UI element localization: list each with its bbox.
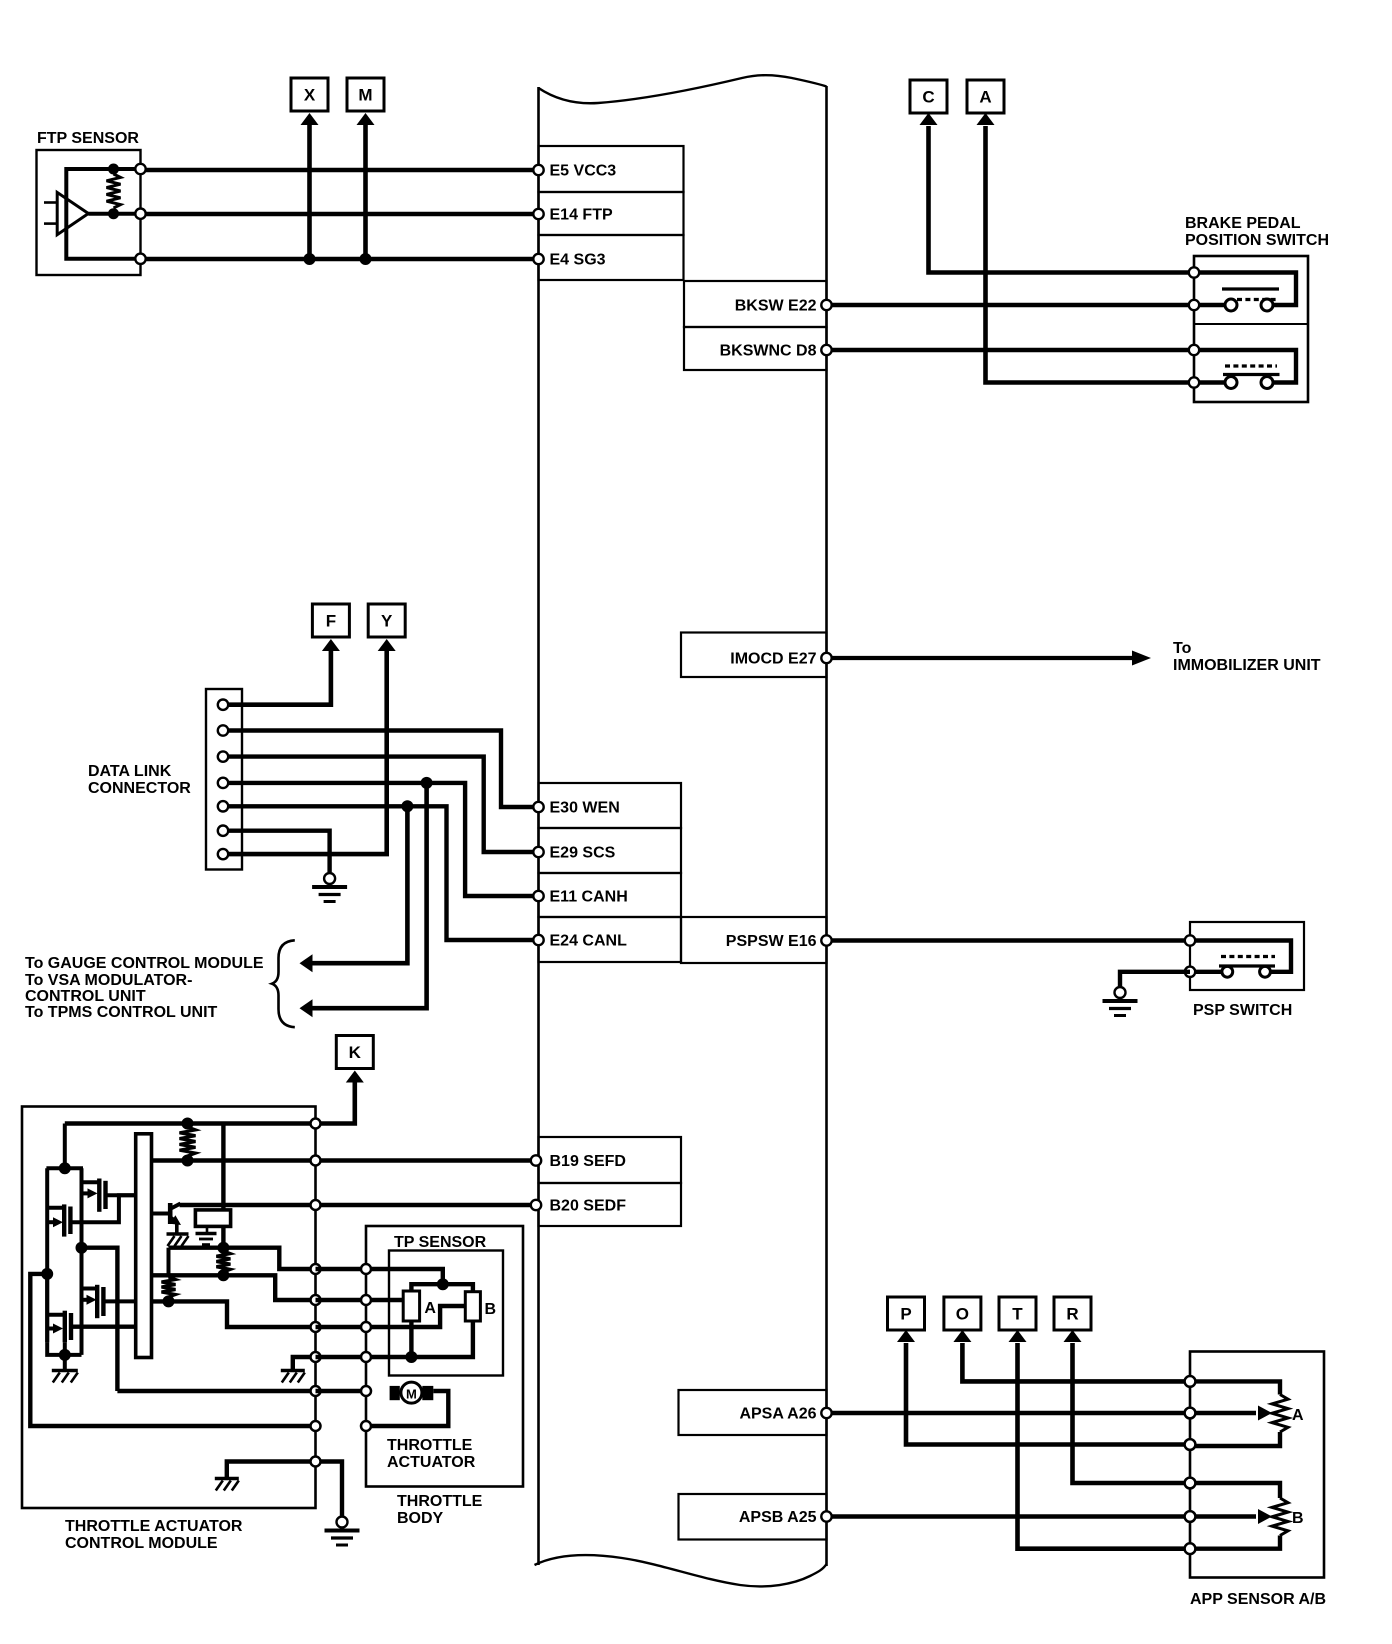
wire TACM to throttle body VCC bbox=[316, 1267, 367, 1271]
svg-text:APSA A26: APSA A26 bbox=[739, 1406, 816, 1423]
FTP sensor pin 3 bbox=[135, 254, 145, 264]
wire ECM BKSWNC D8 to switch bbox=[832, 348, 1195, 352]
PSP switch closed contact bar bbox=[1219, 964, 1275, 967]
APP sensor pot A feed wires bbox=[1190, 1381, 1280, 1394]
svg-text:M: M bbox=[406, 1387, 417, 1402]
junction dot R1 top bbox=[182, 1118, 194, 1130]
wire TACM to TP signal A bbox=[316, 1298, 367, 1302]
APP sensor pot B feed wires bbox=[1190, 1483, 1280, 1498]
wire motor feed bbox=[117, 1389, 315, 1393]
wire ECM BKSW E22 to switch bbox=[832, 303, 1195, 307]
ECM band bottom wavy edge bbox=[535, 1555, 827, 1586]
brace for module list bbox=[272, 940, 295, 1027]
throttle body pin circles bbox=[361, 1264, 371, 1274]
svg-text:PSPSW E16: PSPSW E16 bbox=[726, 933, 817, 950]
ECM pin box B19 SEFD bbox=[539, 1137, 682, 1183]
TACM pin circles bbox=[311, 1119, 321, 1129]
PSP switch dashed contact bbox=[1221, 955, 1275, 958]
svg-text:A: A bbox=[424, 1300, 436, 1317]
TP sensor VCC wire bbox=[366, 1269, 443, 1284]
wire DLC pin4 to E11 CANH bbox=[228, 783, 533, 896]
ECM pin circle E24 bbox=[533, 935, 543, 945]
transistor Q5 bbox=[168, 1203, 173, 1224]
svg-text:O: O bbox=[956, 1305, 969, 1324]
APP sensor box bbox=[1190, 1352, 1324, 1578]
wire TACM bus to B19 row resistor bbox=[63, 1124, 67, 1169]
FTP sensor box bbox=[37, 150, 141, 275]
transistor Q5 emitter to ground bbox=[175, 1224, 179, 1233]
wire motor return loop bbox=[366, 1391, 448, 1426]
junction dot TP VCC split bbox=[437, 1278, 449, 1290]
brake switch upper pins bbox=[1189, 267, 1199, 277]
op-amp U1 in FTP sensor bbox=[57, 192, 88, 234]
ECM pin circle BKSWNC D8 bbox=[821, 345, 831, 355]
TP signal B wire bbox=[366, 1306, 465, 1327]
ECM pin circle PSPSW E16 bbox=[821, 935, 831, 945]
resistor in FTP sensor bbox=[107, 174, 121, 208]
wire DLC pin2 to E30 WEN bbox=[228, 731, 533, 808]
wire source bus to chassis ground bbox=[63, 1355, 67, 1370]
junction dot bus left bbox=[59, 1162, 71, 1174]
ECM pin box IMOCD E27 bbox=[681, 633, 827, 678]
MOSFET Q2 low side bbox=[45, 1168, 49, 1342]
svg-text:BODY: BODY bbox=[397, 1510, 444, 1527]
wire riser connector T bbox=[1018, 1343, 1191, 1549]
brake switch upper contact internal wiring bbox=[1194, 273, 1296, 306]
MOSFET Q2 gate wire bbox=[70, 1195, 135, 1222]
ECM pin circle E30 bbox=[533, 802, 543, 812]
chassis ground at H-bridge source bbox=[52, 1369, 78, 1373]
svg-text:K: K bbox=[349, 1043, 362, 1062]
brake switch upper contact terminals bbox=[1225, 299, 1237, 311]
wire APSA A26 to APP sensor bbox=[832, 1411, 1191, 1415]
wire DLC pin7 to connector Y bbox=[228, 650, 387, 854]
wire DLC pin6 to ground bbox=[228, 831, 330, 872]
wire PSP switch to ground bbox=[1120, 972, 1190, 986]
ECM pin box E14 FTP bbox=[539, 192, 684, 235]
ECM pin box E24 CANL bbox=[539, 917, 682, 962]
wire TACM to TP signal B bbox=[316, 1325, 367, 1329]
throttle actuator control module box bbox=[22, 1107, 316, 1509]
svg-text:TP SENSOR: TP SENSOR bbox=[394, 1234, 487, 1251]
brake switch lower contact internal wiring bbox=[1194, 350, 1296, 383]
ECM pin box BKSW E22 bbox=[684, 281, 827, 327]
svg-text:POSITION SWITCH: POSITION SWITCH bbox=[1185, 232, 1329, 249]
brake switch lower pins bbox=[1189, 345, 1199, 355]
ground bars under relay coil bbox=[206, 1226, 209, 1232]
PSP switch contact terminals bbox=[1222, 966, 1233, 977]
svg-text:To VSA MODULATOR-: To VSA MODULATOR- bbox=[25, 972, 192, 989]
ECM band right edge bbox=[825, 86, 828, 1566]
svg-text:ACTUATOR: ACTUATOR bbox=[387, 1454, 476, 1471]
wire op-amp output to pin bbox=[88, 212, 140, 216]
ground G101 below DLC bbox=[324, 873, 335, 884]
svg-text:F: F bbox=[326, 612, 336, 631]
svg-text:BRAKE PEDAL: BRAKE PEDAL bbox=[1185, 215, 1301, 232]
wire TACM to motor bbox=[316, 1389, 367, 1393]
connector R box bbox=[1054, 1297, 1091, 1330]
svg-text:THROTTLE: THROTTLE bbox=[397, 1493, 483, 1510]
svg-text:Y: Y bbox=[381, 612, 393, 631]
wire riser to connector M bbox=[363, 124, 368, 259]
connector F box bbox=[312, 604, 349, 637]
svg-text:E24 CANL: E24 CANL bbox=[550, 933, 628, 950]
svg-text:M: M bbox=[358, 86, 372, 105]
svg-text:DATA LINK: DATA LINK bbox=[88, 763, 172, 780]
TP sensor box bbox=[389, 1251, 503, 1376]
PSP switch pins bbox=[1185, 935, 1195, 945]
svg-text:P: P bbox=[900, 1305, 911, 1324]
ground G101 below TACM bbox=[337, 1517, 348, 1528]
brake switch lower contact terminals bbox=[1225, 377, 1237, 389]
svg-text:IMOCD E27: IMOCD E27 bbox=[730, 651, 816, 668]
ECM pin box E4 SG3 bbox=[539, 235, 684, 280]
svg-text:B19 SEFD: B19 SEFD bbox=[550, 1153, 626, 1170]
ECM pin circle E14 bbox=[533, 209, 543, 219]
junction dot source bus bbox=[59, 1349, 71, 1361]
wire comparator TP feedback A bbox=[152, 1275, 316, 1300]
svg-text:CONTROL UNIT: CONTROL UNIT bbox=[25, 988, 146, 1005]
ECM pin circle APSB A25 bbox=[821, 1511, 831, 1521]
svg-text:APSB A25: APSB A25 bbox=[739, 1509, 817, 1526]
svg-text:C: C bbox=[922, 88, 934, 107]
svg-text:T: T bbox=[1012, 1305, 1023, 1324]
wire DLC pin5 to E24 CANL bbox=[228, 806, 533, 940]
wire TP sensor ground to chassis ground bbox=[293, 1357, 316, 1370]
resistor R2 bbox=[216, 1251, 230, 1272]
ECM pin circle E29 bbox=[533, 847, 543, 857]
svg-text:THROTTLE: THROTTLE bbox=[387, 1437, 473, 1454]
junction dot CANH branch bbox=[421, 777, 433, 789]
wire riser connector P bbox=[906, 1343, 1190, 1445]
wire comparator feedback upper bbox=[169, 1248, 316, 1269]
connector K box bbox=[336, 1036, 373, 1069]
connector P box bbox=[888, 1297, 925, 1330]
PSP switch box bbox=[1190, 922, 1304, 990]
ECM pin box APSA A26 bbox=[679, 1390, 827, 1435]
MOSFET Q4 low side bbox=[45, 1274, 49, 1342]
junction dot R2 top bbox=[217, 1242, 229, 1254]
wire H-bridge left to motor return bbox=[30, 1274, 315, 1426]
wire TACM to ground G101 bbox=[316, 1462, 343, 1517]
ECM pin circle E5 bbox=[533, 165, 543, 175]
ECM pin box APSB A25 bbox=[679, 1494, 827, 1540]
svg-text:A: A bbox=[1292, 1407, 1304, 1424]
potentiometer element B bbox=[465, 1292, 480, 1321]
wire B19 SEFD to ECM bbox=[316, 1158, 534, 1162]
connector O box bbox=[944, 1297, 981, 1330]
connector C box bbox=[910, 80, 947, 113]
junction dot R2 bottom bbox=[217, 1269, 229, 1281]
MOSFET Q4 gate wire to comparator bbox=[71, 1324, 136, 1328]
APP sensor pin circles bbox=[1185, 1376, 1196, 1387]
svg-text:E14 FTP: E14 FTP bbox=[550, 207, 613, 224]
ground G402 below PSP switch bbox=[1115, 987, 1126, 998]
wire B19 SEFD from comparator bbox=[152, 1158, 316, 1162]
ECM pin circle IMOCD E27 bbox=[821, 653, 831, 663]
TP signal A wire bbox=[366, 1298, 403, 1302]
wire APSB A25 to APP sensor bbox=[832, 1514, 1191, 1518]
svg-text:To GAUGE CONTROL MODULE: To GAUGE CONTROL MODULE bbox=[25, 955, 264, 972]
junction dot FTP resistor bottom bbox=[108, 208, 119, 219]
wire comparator TP feedback B bbox=[152, 1301, 316, 1327]
connector Y box bbox=[368, 604, 405, 637]
svg-text:IMMOBILIZER UNIT: IMMOBILIZER UNIT bbox=[1173, 657, 1321, 674]
wire riser to connector K bbox=[316, 1082, 355, 1124]
ECM band top wavy edge bbox=[539, 75, 827, 103]
wire riser connector C to brake switch bbox=[929, 126, 1195, 273]
svg-text:B: B bbox=[485, 1301, 497, 1318]
FTP sensor pin 2 bbox=[135, 209, 145, 219]
transistor Q5 base wire bbox=[152, 1212, 171, 1216]
connector M box bbox=[347, 78, 384, 111]
PSP switch internal wiring bbox=[1190, 941, 1291, 972]
MOSFET Q3 gate wire to comparator bbox=[103, 1299, 135, 1303]
svg-text:X: X bbox=[304, 86, 316, 105]
FTP sensor pin 1 bbox=[135, 164, 145, 174]
svg-text:E5 VCC3: E5 VCC3 bbox=[550, 163, 617, 180]
ECM band left edge bbox=[537, 87, 540, 1565]
ECM pin box B20 SEDF bbox=[539, 1183, 682, 1226]
junction dot R3 bottom bbox=[163, 1295, 175, 1307]
wire FTP sensor to E14 FTP bbox=[146, 212, 534, 216]
brake switch upper dashed contact bbox=[1237, 298, 1277, 301]
junction dot X on E4 SG3 wire bbox=[304, 253, 316, 265]
wire PSPSW E16 to PSP switch bbox=[832, 938, 1191, 942]
wire relay coil to R2 bbox=[221, 1226, 225, 1247]
wire B20 SEDF to ECM bbox=[316, 1203, 534, 1207]
brake pedal position switch box bbox=[1194, 256, 1308, 402]
svg-text:E4 SG3: E4 SG3 bbox=[550, 252, 606, 269]
ECM pin box BKSWNC D8 bbox=[684, 327, 827, 370]
brake switch lower dashed contact bbox=[1225, 364, 1277, 367]
wire Q1/Q3 node to motor feed bbox=[82, 1248, 118, 1391]
TACM internal top bus wire bbox=[65, 1121, 316, 1125]
throttle actuator motor M bbox=[390, 1386, 400, 1400]
svg-text:E11 CANH: E11 CANH bbox=[550, 889, 628, 906]
ECM pin circle E11 bbox=[533, 891, 543, 901]
wire B20 SEDF from driver bbox=[180, 1203, 316, 1207]
svg-text:B20 SEDF: B20 SEDF bbox=[550, 1198, 627, 1215]
wire branch arrow to gauge control module bbox=[306, 806, 407, 963]
svg-text:CONNECTOR: CONNECTOR bbox=[88, 780, 191, 797]
wire FTP sensor to E5 VCC3 bbox=[146, 168, 534, 172]
ECM pin box PSPSW E16 bbox=[681, 917, 827, 963]
MOSFET Q1 high side bbox=[80, 1168, 84, 1248]
ECM pin box E5 VCC3 bbox=[539, 146, 684, 192]
resistor R1 bbox=[180, 1127, 196, 1156]
wire FTP sensor to E4 SG3 bbox=[146, 257, 534, 261]
ECM pin circle E4 bbox=[533, 254, 543, 264]
connector T box bbox=[999, 1297, 1036, 1330]
junction dot CANL branch bbox=[401, 800, 413, 812]
svg-text:E29 SCS: E29 SCS bbox=[550, 845, 616, 862]
svg-text:To: To bbox=[1173, 640, 1192, 657]
ECM pin box E29 SCS bbox=[539, 828, 682, 873]
DLC pin circles bbox=[218, 700, 228, 710]
junction dot R1 bottom bbox=[182, 1155, 194, 1167]
potentiometer element A bbox=[403, 1291, 419, 1321]
brake switch divider bbox=[1194, 323, 1308, 325]
svg-text:CONTROL MODULE: CONTROL MODULE bbox=[65, 1535, 218, 1552]
TP ground wire bbox=[366, 1321, 473, 1357]
wire TACM to TP ground bbox=[316, 1355, 367, 1359]
chassis ground at Q5 emitter bbox=[167, 1232, 189, 1236]
junction dot M on E4 SG3 wire bbox=[360, 253, 372, 265]
wire IMOCD E27 to immobilizer unit bbox=[832, 656, 1135, 660]
potentiometer A with wiper bbox=[1272, 1395, 1288, 1433]
wire branch arrow to TPMS control unit bbox=[306, 783, 427, 1008]
FTP sensor internal wire loop bbox=[66, 169, 140, 259]
ECM pin circle BKSW E22 bbox=[821, 300, 831, 310]
junction dot H-bridge left mid bbox=[41, 1268, 53, 1280]
svg-text:BKSWNC D8: BKSWNC D8 bbox=[720, 343, 817, 360]
chassis ground at TP sensor return bbox=[281, 1369, 305, 1373]
vertical link and resistor R3 bbox=[167, 1248, 171, 1277]
wire riser connector O bbox=[962, 1343, 1190, 1381]
ECM pin circle B19 bbox=[531, 1155, 541, 1165]
svg-text:BKSW E22: BKSW E22 bbox=[735, 298, 817, 315]
ECM pin circle B20 bbox=[531, 1200, 541, 1210]
wire riser to connector X bbox=[307, 124, 312, 259]
ECM pin box E11 CANH bbox=[539, 873, 682, 917]
svg-text:A: A bbox=[979, 88, 991, 107]
ECM pin circle APSA A26 bbox=[821, 1408, 831, 1418]
data link connector box bbox=[206, 689, 242, 870]
connector X box bbox=[291, 78, 328, 111]
junction dot Q1 source rail bbox=[76, 1242, 88, 1254]
svg-text:R: R bbox=[1066, 1305, 1078, 1324]
wire module case ground bbox=[227, 1462, 316, 1478]
relay coil box bbox=[195, 1210, 230, 1227]
svg-text:PSP SWITCH: PSP SWITCH bbox=[1193, 1002, 1292, 1019]
svg-text:APP SENSOR A/B: APP SENSOR A/B bbox=[1190, 1591, 1326, 1608]
H-bridge low side source bus bbox=[47, 1342, 81, 1355]
wire riser connector R bbox=[1073, 1343, 1191, 1483]
junction dot TP ground bbox=[405, 1351, 417, 1363]
svg-text:To TPMS CONTROL UNIT: To TPMS CONTROL UNIT bbox=[25, 1004, 218, 1021]
svg-text:B: B bbox=[1292, 1510, 1304, 1527]
svg-text:THROTTLE ACTUATOR: THROTTLE ACTUATOR bbox=[65, 1518, 243, 1535]
junction dot FTP resistor top bbox=[108, 164, 119, 175]
comparator block bar bbox=[136, 1134, 152, 1358]
svg-text:E30 WEN: E30 WEN bbox=[550, 800, 620, 817]
connector A box bbox=[967, 80, 1004, 113]
wire DLC pin1 to connector F bbox=[228, 650, 331, 705]
brake switch lower open contact bar bbox=[1223, 373, 1280, 376]
chassis ground at module case bbox=[215, 1477, 239, 1481]
MOSFET Q1 gate wire to comparator bbox=[106, 1193, 136, 1197]
relay coil vertical feed wire bbox=[221, 1124, 225, 1210]
svg-text:FTP SENSOR: FTP SENSOR bbox=[37, 130, 139, 147]
MOSFET Q3 high side bbox=[82, 1287, 98, 1291]
potentiometer B with wiper bbox=[1272, 1498, 1288, 1536]
wire DLC pin3 to E29 SCS bbox=[228, 757, 533, 852]
brake switch upper closed contact bar bbox=[1222, 287, 1279, 290]
throttle body box bbox=[366, 1226, 523, 1487]
wire riser connector A to brake switch bbox=[986, 126, 1195, 383]
ECM pin box E30 WEN bbox=[539, 783, 682, 828]
